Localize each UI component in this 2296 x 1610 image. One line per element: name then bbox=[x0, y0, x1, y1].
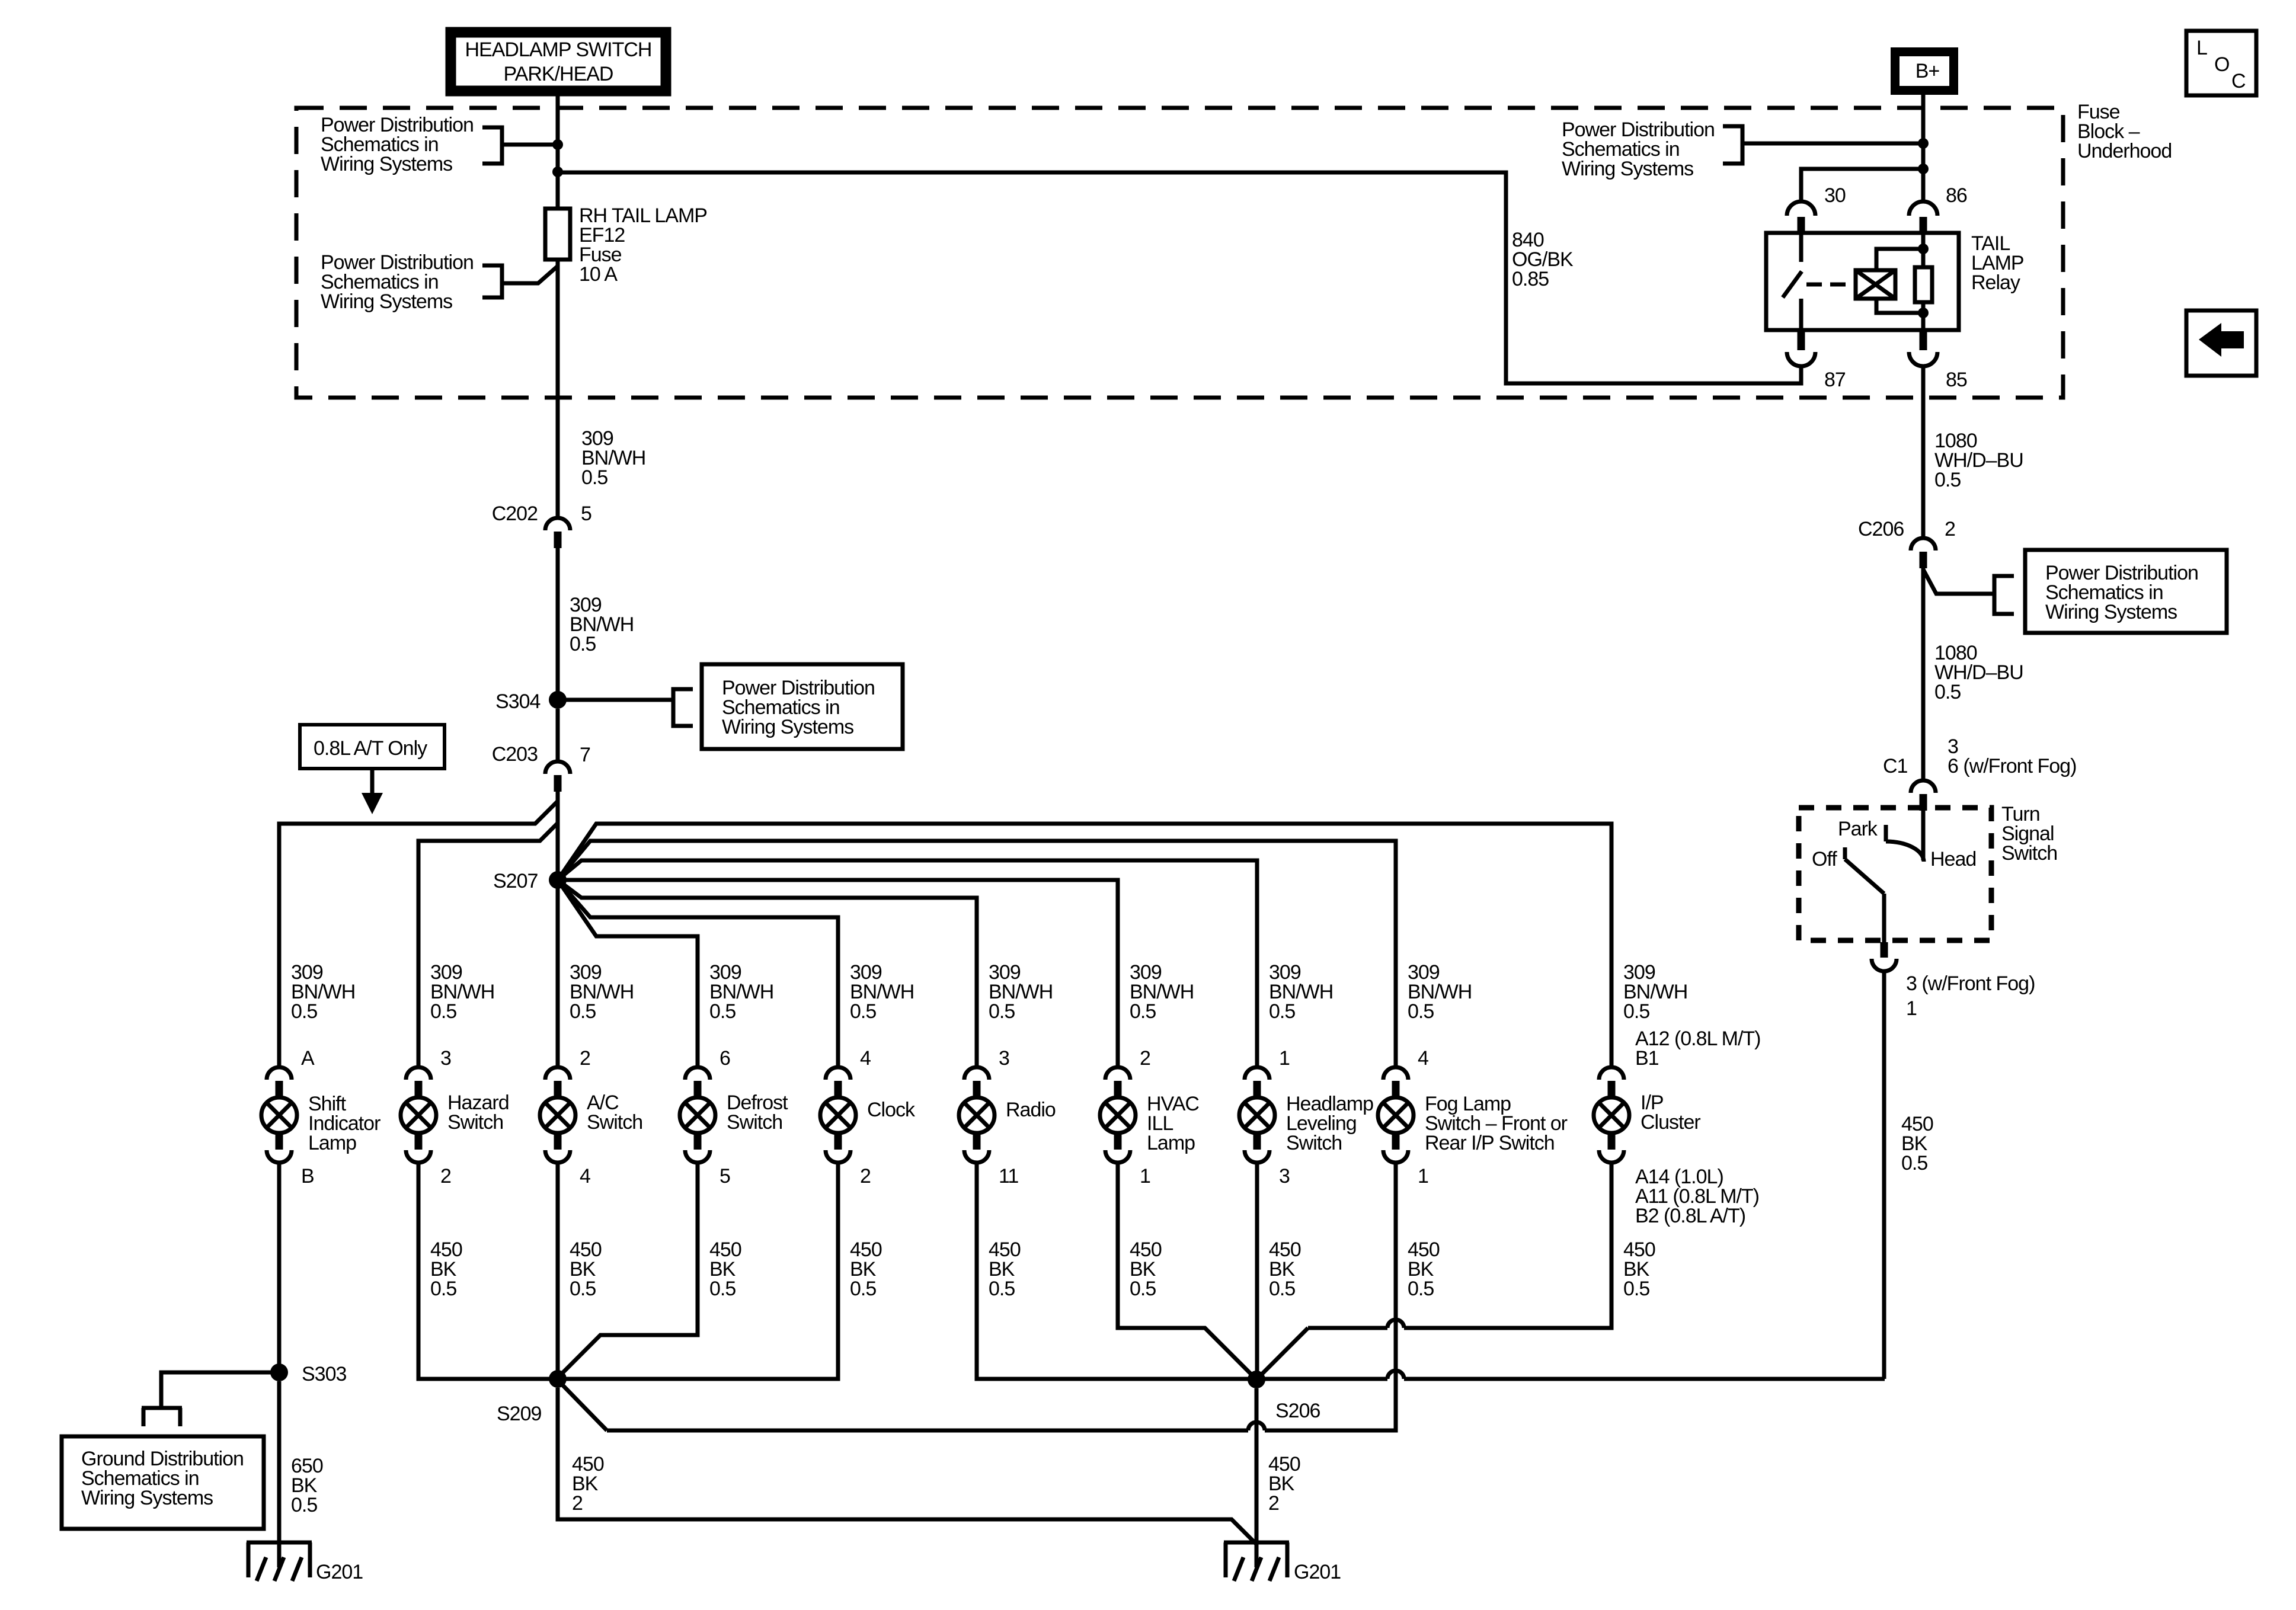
svg-text:L: L bbox=[2196, 37, 2207, 59]
connector C206 pin 2 bbox=[1858, 518, 1955, 568]
connector C1 pin 3 / 6 (w/Front Fog) bbox=[1883, 735, 2076, 811]
svg-text:Clock: Clock bbox=[867, 1099, 916, 1121]
lamp symbol headlamp leveling switch bbox=[1239, 1067, 1275, 1163]
wire branch S207 to headlamp leveling switch bbox=[558, 860, 1257, 1067]
svg-text:Radio: Radio bbox=[1006, 1099, 1056, 1121]
wire branch S207 to clock bbox=[558, 880, 838, 1067]
svg-text:0.5: 0.5 bbox=[570, 1000, 596, 1023]
label Fuse Block - Underhood bbox=[2077, 101, 2172, 162]
svg-text:Park: Park bbox=[1838, 818, 1878, 840]
node junction dot at pin 30 branch bbox=[1918, 164, 1929, 174]
svg-text:C: C bbox=[2231, 70, 2246, 92]
label TAIL LAMP Relay bbox=[1971, 232, 2024, 294]
svg-text:30: 30 bbox=[1824, 184, 1846, 207]
svg-text:0.5: 0.5 bbox=[291, 1494, 317, 1516]
switch positions Park / Off / Head bbox=[1812, 818, 1976, 870]
relay coil bbox=[1856, 270, 1895, 299]
svg-text:Underhood: Underhood bbox=[2077, 140, 2172, 162]
wire HVAC ILL lamp to S206 bbox=[1118, 1164, 1256, 1379]
wire fuse to C202 bbox=[556, 260, 560, 517]
svg-text:0.5: 0.5 bbox=[570, 633, 596, 655]
reference Power Distribution Schematics (right box) bbox=[1994, 550, 2227, 633]
svg-text:3: 3 bbox=[1279, 1165, 1290, 1188]
wire fog lamp switch down across to S209 bbox=[1265, 1164, 1396, 1430]
pin 30 connector of tail lamp relay bbox=[1787, 184, 1846, 232]
svg-text:6 (w/Front Fog): 6 (w/Front Fog) bbox=[1948, 755, 2076, 777]
lamp symbol I/P cluster bbox=[1594, 1067, 1629, 1163]
svg-text:0.5: 0.5 bbox=[430, 1000, 456, 1023]
svg-text:0.5: 0.5 bbox=[291, 1000, 317, 1023]
label HVAC ILL lamp bbox=[1147, 1093, 1199, 1154]
wire branch to shift indicator lamp (0.8L A/T only) bbox=[279, 801, 558, 1067]
wire tap to lower-left power distribution bbox=[502, 266, 558, 283]
label headlamp leveling switch bbox=[1286, 1093, 1373, 1154]
label 309 BN/WH 0.5 (I/P cluster feed) bbox=[1623, 961, 1687, 1023]
svg-text:B2 (0.8L A/T): B2 (0.8L A/T) bbox=[1635, 1205, 1745, 1227]
label 309 BN/WH 0.5 (fog lamp switch feed) bbox=[1408, 961, 1472, 1023]
reference Power Distribution Schematics (lower left) bbox=[321, 251, 502, 313]
svg-text:4: 4 bbox=[580, 1165, 590, 1188]
node junction dot at power tap bbox=[552, 139, 563, 150]
svg-text:S304: S304 bbox=[495, 690, 540, 713]
note box 0.8L A/T Only with arrow bbox=[300, 725, 445, 814]
svg-text:Wiring Systems: Wiring Systems bbox=[321, 290, 452, 313]
svg-text:2: 2 bbox=[860, 1165, 871, 1188]
svg-text:Lamp: Lamp bbox=[308, 1132, 356, 1154]
wire S209 to G201 bbox=[558, 1388, 1256, 1544]
pin A14 (1.0L) / A11 (0.8L M/T) / B2 (0.8L A/T) (I/P cluster lower) bbox=[1635, 1166, 1759, 1227]
label clock bbox=[867, 1099, 916, 1121]
svg-text:2: 2 bbox=[440, 1165, 451, 1188]
label 1080 WH/D-BU 0.5 (above C206) bbox=[1934, 430, 2023, 491]
wire defrost switch to S209 bbox=[558, 1164, 698, 1378]
lamp symbol radio bbox=[959, 1067, 994, 1163]
label 450 BK 0.5 (clock ground) bbox=[850, 1238, 882, 1300]
svg-text:S303: S303 bbox=[302, 1363, 346, 1385]
svg-text:0.8L A/T Only: 0.8L A/T Only bbox=[314, 737, 427, 760]
label 309 BN/WH 0.5 (headlamp leveling switch feed) bbox=[1269, 961, 1333, 1023]
wire C1 into switch (Head contact) bbox=[1921, 811, 1926, 860]
wire tap to upper-right power distribution bbox=[1742, 142, 1920, 146]
label defrost switch bbox=[727, 1092, 788, 1134]
label 309 BN/WH 0.5 (HVAC ILL lamp feed) bbox=[1130, 961, 1194, 1023]
lamp symbol defrost switch bbox=[680, 1067, 715, 1163]
wire B+ down to relay pin 86 bbox=[1921, 95, 1926, 203]
svg-text:S209: S209 bbox=[497, 1403, 541, 1425]
wire relay pin 85 to C206 bbox=[1921, 366, 1926, 537]
svg-text:87: 87 bbox=[1824, 369, 1846, 391]
relay resistor bbox=[1915, 233, 1932, 330]
svg-text:Rear I/P Switch: Rear I/P Switch bbox=[1425, 1132, 1555, 1154]
svg-text:2: 2 bbox=[580, 1047, 590, 1070]
svg-text:1: 1 bbox=[1906, 997, 1917, 1020]
wire C203 to S207 bbox=[556, 792, 560, 889]
svg-text:0.5: 0.5 bbox=[850, 1278, 876, 1300]
splice S303 bbox=[270, 1363, 346, 1385]
svg-text:Off: Off bbox=[1812, 848, 1837, 870]
wire coil parallel loop bbox=[1876, 249, 1923, 270]
lamp symbol shift indicator lamp bbox=[261, 1067, 297, 1163]
wire headlamp switch to fuse bbox=[556, 92, 560, 209]
svg-text:0.5: 0.5 bbox=[989, 1000, 1015, 1023]
svg-text:4: 4 bbox=[1418, 1047, 1428, 1070]
svg-text:0.5: 0.5 bbox=[709, 1278, 736, 1300]
svg-text:2: 2 bbox=[572, 1492, 583, 1515]
wire hazard switch to S209 bbox=[418, 1164, 558, 1379]
label 840 OG/BK 0.85 bbox=[1512, 229, 1574, 290]
power terminal B+ box bbox=[1895, 52, 1954, 91]
label 450 BK 0.5 (defrost switch ground) bbox=[709, 1238, 741, 1300]
label 450 BK 2 (S206 ground) bbox=[1268, 1453, 1300, 1515]
svg-text:Switch: Switch bbox=[587, 1111, 642, 1134]
label 309 BN/WH 0.5 (hazard switch feed) bbox=[430, 961, 494, 1023]
svg-text:0.5: 0.5 bbox=[1901, 1152, 1927, 1174]
label radio bbox=[1006, 1099, 1056, 1121]
svg-text:PARK/HEAD: PARK/HEAD bbox=[504, 63, 613, 85]
svg-text:0.85: 0.85 bbox=[1512, 268, 1549, 290]
svg-text:C1: C1 bbox=[1883, 755, 1908, 777]
svg-text:4: 4 bbox=[860, 1047, 871, 1070]
label 1080 WH/D-BU 0.5 (below C206) bbox=[1934, 642, 2023, 703]
wire S303 to G201 bbox=[277, 1381, 282, 1567]
svg-text:Wiring Systems: Wiring Systems bbox=[81, 1487, 213, 1509]
fuse EF12 RH TAIL LAMP 10A bbox=[545, 204, 707, 286]
wire S207 down to A/C switch bbox=[556, 889, 560, 1067]
label 450 BK 2 (S209 ground) bbox=[572, 1453, 604, 1515]
svg-text:0.5: 0.5 bbox=[989, 1278, 1015, 1300]
svg-text:C202: C202 bbox=[492, 502, 538, 525]
switch blade Off position bbox=[1845, 847, 1884, 942]
svg-text:2: 2 bbox=[1945, 518, 1955, 540]
svg-text:Switch: Switch bbox=[727, 1111, 782, 1134]
node relay coil bottom junction bbox=[1918, 308, 1929, 318]
wire radio to S206 bbox=[977, 1164, 1248, 1379]
ground G201 (center) bbox=[1224, 1542, 1341, 1583]
relay actuation dashed link bbox=[1806, 283, 1846, 287]
label 309 BN/WH 0.5 (defrost switch feed) bbox=[709, 961, 773, 1023]
label fog lamp switch bbox=[1425, 1093, 1568, 1154]
label 450 BK 0.5 (A/C switch ground) bbox=[570, 1238, 602, 1300]
connector box HEADLAMP SWITCH PARK/HEAD bbox=[449, 31, 667, 92]
wire branch S207 to I/P cluster bbox=[558, 824, 1611, 1067]
svg-text:86: 86 bbox=[1946, 184, 1967, 207]
wire branch S207 to defrost switch bbox=[558, 880, 698, 1067]
svg-text:A: A bbox=[301, 1047, 315, 1070]
splice S207 bbox=[493, 870, 567, 892]
reference Power Distribution Schematics (upper right) bbox=[1562, 119, 1742, 180]
wire 840 OG/BK to relay pin 87 bbox=[558, 172, 1801, 383]
svg-text:0.5: 0.5 bbox=[430, 1278, 456, 1300]
label 450 BK 0.5 (headlamp leveling switch ground) bbox=[1269, 1238, 1301, 1300]
label 450 BK 0.5 (fog lamp switch ground) bbox=[1408, 1238, 1440, 1300]
svg-text:Head: Head bbox=[1930, 848, 1976, 870]
wire tap S304 to power distribution reference bbox=[565, 698, 673, 702]
hop where fog lamp wire crosses S206 ground wire bbox=[1248, 1422, 1265, 1430]
back-arrow reference box bbox=[2186, 311, 2256, 376]
svg-text:3 (w/Front Fog): 3 (w/Front Fog) bbox=[1906, 972, 2035, 995]
svg-text:1: 1 bbox=[1418, 1165, 1428, 1188]
svg-text:Wiring Systems: Wiring Systems bbox=[722, 716, 853, 738]
switch wiper arc Park to Head bbox=[1886, 825, 1924, 862]
svg-text:0.5: 0.5 bbox=[850, 1000, 876, 1023]
pin 86 connector of tail lamp relay bbox=[1909, 184, 1967, 232]
wire clock to S209 bbox=[558, 1164, 838, 1379]
relay box TAIL LAMP Relay bbox=[1766, 233, 1959, 330]
reference Power Distribution Schematics (S304 box) bbox=[673, 664, 903, 749]
wire tap to upper-left power distribution bbox=[502, 143, 555, 147]
svg-text:5: 5 bbox=[581, 502, 591, 525]
splice S209 bbox=[497, 1370, 567, 1425]
svg-text:S207: S207 bbox=[493, 870, 538, 892]
svg-text:1: 1 bbox=[1279, 1047, 1290, 1070]
wire branch S207 to HVAC ILL lamp bbox=[558, 880, 1118, 1067]
svg-text:11: 11 bbox=[999, 1165, 1018, 1188]
label 450 BK 0.5 (turn signal ground) bbox=[1901, 1113, 1933, 1174]
hop where fog lamp wire crosses S206 horizontal bbox=[1387, 1371, 1404, 1379]
wire shift indicator lamp to S303 bbox=[277, 1164, 282, 1372]
svg-text:Switch: Switch bbox=[2001, 842, 2057, 865]
wire branch to relay pin 30 bbox=[1801, 169, 1920, 203]
svg-text:3: 3 bbox=[999, 1047, 1009, 1070]
svg-text:5: 5 bbox=[720, 1165, 730, 1188]
lamp symbol HVAC ILL lamp bbox=[1100, 1067, 1136, 1163]
wire tap S303 to ground distribution reference bbox=[161, 1372, 271, 1406]
svg-text:Cluster: Cluster bbox=[1641, 1111, 1700, 1134]
lamp symbol clock bbox=[820, 1067, 856, 1163]
svg-text:0.5: 0.5 bbox=[1623, 1278, 1649, 1300]
svg-text:0.5: 0.5 bbox=[1408, 1278, 1434, 1300]
relay switch contact (pin 30 to 87) bbox=[1783, 233, 1802, 330]
node junction dot at right power tap bbox=[1918, 138, 1929, 149]
reference Ground Distribution Schematics box bbox=[62, 1408, 264, 1529]
label hazard switch bbox=[447, 1092, 509, 1134]
wire I/P cluster to S206 bbox=[1404, 1164, 1611, 1328]
label 309 BN/WH 0.5 (below C202) bbox=[570, 594, 634, 655]
svg-text:2: 2 bbox=[1268, 1492, 1279, 1515]
wire C202 to S304 bbox=[556, 548, 560, 693]
svg-text:0.5: 0.5 bbox=[570, 1278, 596, 1300]
svg-text:0.5: 0.5 bbox=[1130, 1000, 1156, 1023]
connector C203 pin 7 bbox=[492, 743, 590, 792]
svg-text:0.5: 0.5 bbox=[1269, 1278, 1295, 1300]
svg-text:0.5: 0.5 bbox=[1130, 1278, 1156, 1300]
svg-text:Wiring Systems: Wiring Systems bbox=[1562, 158, 1693, 180]
label 450 BK 0.5 (HVAC ILL lamp ground) bbox=[1130, 1238, 1162, 1300]
svg-text:HEADLAMP SWITCH: HEADLAMP SWITCH bbox=[465, 39, 652, 61]
node relay coil top junction bbox=[1918, 244, 1929, 254]
svg-text:Switch: Switch bbox=[447, 1111, 503, 1134]
splice S304 bbox=[495, 690, 567, 713]
wire branch to hazard switch bbox=[418, 823, 558, 1067]
svg-text:0.5: 0.5 bbox=[1934, 469, 1961, 491]
svg-text:0.5: 0.5 bbox=[1269, 1000, 1295, 1023]
ground G201 (left) bbox=[247, 1542, 363, 1583]
wire C206 to C1 bbox=[1921, 568, 1926, 780]
pin A12 (0.8L M/T) / B1 (I/P cluster upper) bbox=[1635, 1028, 1760, 1070]
connector C202 pin 5 bbox=[492, 502, 591, 548]
label 450 BK 0.5 (I/P cluster ground) bbox=[1623, 1238, 1655, 1300]
svg-text:Relay: Relay bbox=[1971, 271, 2020, 294]
label 450 BK 0.5 (radio ground) bbox=[989, 1238, 1021, 1300]
switch output connector 3 (w/Front Fog) / 1 bbox=[1872, 942, 2035, 1020]
wire headlamp leveling switch to S206 bbox=[1255, 1164, 1259, 1379]
svg-text:3: 3 bbox=[440, 1047, 451, 1070]
svg-text:B1: B1 bbox=[1635, 1047, 1659, 1070]
lamp symbol hazard switch bbox=[401, 1067, 436, 1163]
label shift indicator lamp bbox=[308, 1093, 380, 1154]
wire A/C switch to S209 bbox=[556, 1164, 560, 1379]
label 309 BN/WH 0.5 (shift indicator lamp feed) bbox=[291, 961, 355, 1023]
lamp symbol fog lamp switch bbox=[1378, 1067, 1414, 1163]
wire S206 to turn signal switch branch bbox=[1265, 1377, 1387, 1381]
svg-text:O: O bbox=[2214, 53, 2229, 76]
svg-text:Lamp: Lamp bbox=[1147, 1132, 1195, 1154]
svg-text:B: B bbox=[301, 1165, 314, 1188]
reference Power Distribution Schematics (upper left) bbox=[321, 114, 502, 175]
wire tap C206 to power distribution reference bbox=[1923, 569, 1994, 594]
svg-text:0.5: 0.5 bbox=[581, 466, 607, 489]
svg-text:0.5: 0.5 bbox=[709, 1000, 736, 1023]
hop where fog lamp wire crosses I/P cluster wire bbox=[1387, 1320, 1404, 1328]
svg-text:2: 2 bbox=[1140, 1047, 1150, 1070]
label I/P cluster bbox=[1641, 1092, 1700, 1134]
svg-text:C203: C203 bbox=[492, 743, 538, 766]
label 309 BN/WH 0.5 (radio feed) bbox=[989, 961, 1053, 1023]
svg-text:Wiring Systems: Wiring Systems bbox=[2045, 601, 2177, 623]
LOC reference box bbox=[2186, 31, 2256, 95]
svg-text:10 A: 10 A bbox=[579, 263, 618, 286]
svg-text:G201: G201 bbox=[1294, 1561, 1341, 1583]
svg-text:7: 7 bbox=[580, 744, 590, 766]
svg-text:C206: C206 bbox=[1858, 518, 1904, 540]
pin 87 connector of tail lamp relay bbox=[1787, 331, 1846, 391]
label Turn Signal Switch bbox=[2001, 803, 2057, 865]
pin 85 connector of tail lamp relay bbox=[1909, 331, 1967, 391]
svg-text:Switch: Switch bbox=[1286, 1132, 1342, 1154]
label A/C switch bbox=[587, 1092, 642, 1134]
fuse block underhood dashed boundary bbox=[296, 108, 2063, 398]
svg-text:6: 6 bbox=[720, 1047, 730, 1070]
label 450 BK 0.5 (hazard switch ground) bbox=[430, 1238, 462, 1300]
wire turn signal switch to S206 bbox=[1882, 973, 1886, 1379]
svg-text:B+: B+ bbox=[1916, 60, 1940, 82]
wire S304 to C203 bbox=[556, 709, 560, 761]
label 309 BN/WH 0.5 (clock feed) bbox=[850, 961, 914, 1023]
svg-text:Wiring Systems: Wiring Systems bbox=[321, 153, 452, 175]
wire branch S207 to fog lamp switch bbox=[558, 841, 1396, 1067]
label 309 BN/WH 0.5 (above C202) bbox=[581, 427, 645, 489]
lamp symbol A/C switch bbox=[540, 1067, 575, 1163]
svg-text:0.5: 0.5 bbox=[1934, 681, 1961, 703]
node junction dot at relay feed bbox=[552, 167, 563, 177]
turn signal switch dashed box bbox=[1799, 808, 1991, 940]
svg-text:G201: G201 bbox=[316, 1561, 363, 1583]
svg-text:0.5: 0.5 bbox=[1623, 1000, 1649, 1023]
splice S206 bbox=[1248, 1371, 1320, 1422]
svg-text:0.5: 0.5 bbox=[1408, 1000, 1434, 1023]
svg-text:S206: S206 bbox=[1275, 1400, 1320, 1422]
label 309 BN/WH 0.5 (A/C switch feed) bbox=[570, 961, 634, 1023]
wire branch S207 to radio bbox=[558, 880, 977, 1067]
label 650 BK 0.5 (shift indicator ground) bbox=[291, 1455, 323, 1516]
svg-text:85: 85 bbox=[1946, 369, 1967, 391]
wire S206 to G201 bbox=[1255, 1388, 1259, 1567]
svg-text:1: 1 bbox=[1140, 1165, 1150, 1188]
